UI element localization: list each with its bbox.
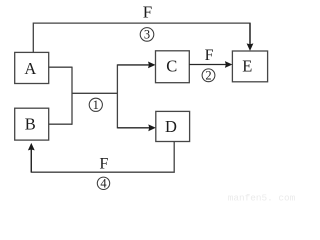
svg-text:A: A: [24, 59, 36, 78]
svg-text:manfen5. com: manfen5. com: [228, 193, 296, 204]
svg-text:F: F: [143, 2, 152, 21]
svg-text:B: B: [25, 115, 36, 134]
svg-text:F: F: [99, 154, 108, 172]
svg-text:2: 2: [205, 69, 211, 83]
svg-text:E: E: [242, 57, 252, 76]
svg-text:3: 3: [144, 28, 150, 42]
svg-text:4: 4: [100, 177, 107, 191]
svg-text:C: C: [166, 57, 177, 76]
svg-text:F: F: [205, 47, 214, 64]
svg-text:1: 1: [93, 98, 99, 112]
svg-text:D: D: [165, 117, 177, 136]
